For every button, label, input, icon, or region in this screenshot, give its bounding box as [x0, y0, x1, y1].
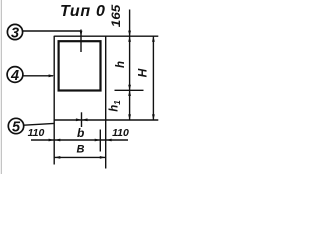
svg-text:5: 5	[12, 119, 21, 135]
svg-text:h1: h1	[109, 100, 123, 112]
svg-text:В: В	[77, 144, 85, 156]
arrowhead of leader 4 pointing right	[49, 74, 55, 77]
arrowhead B-right pointing right	[100, 156, 106, 159]
dimension h vertical line	[129, 36, 131, 90]
bottom extension wire on the right	[54, 119, 158, 121]
dimension B wire	[54, 156, 105, 158]
box right side edge / extension	[105, 36, 107, 169]
arrowhead h1 bottom pointing down	[128, 114, 131, 120]
arrowhead 165 pointing down	[128, 31, 131, 37]
arrowhead h bottom pointing down	[128, 85, 131, 91]
leader drop wire at x=81	[80, 30, 82, 53]
dimension 165 vertical line	[129, 10, 131, 37]
arrowhead b-left pointing left	[55, 139, 61, 142]
svg-text:4: 4	[10, 68, 19, 84]
arrowhead 110-right pointing left	[106, 139, 112, 142]
svg-text:H: H	[136, 68, 150, 77]
extension tick at x=81.5	[81, 112, 83, 127]
svg-text:110: 110	[28, 127, 45, 139]
callout circle 4	[7, 67, 23, 84]
callout circle 5	[8, 118, 23, 135]
arrowhead B-left pointing left	[55, 156, 61, 159]
extension wire at x=100	[99, 130, 101, 152]
svg-text:165: 165	[109, 4, 123, 27]
dimension h1 vertical line	[129, 90, 131, 120]
arrowhead of leader 3 pointing down	[80, 31, 83, 37]
leader wire from callout 4	[23, 75, 53, 77]
arrowhead 110-left pointing right	[49, 139, 55, 142]
svg-text:h: h	[115, 61, 127, 68]
callout circle 3	[7, 24, 22, 41]
box left side edge / extension	[53, 36, 55, 165]
box top edge with right extension	[54, 35, 158, 37]
svg-text:110: 110	[112, 127, 129, 139]
arrowhead h1 top pointing up	[128, 90, 131, 96]
svg-text:b: b	[77, 126, 84, 140]
svg-text:Тип 0: Тип 0	[60, 3, 106, 20]
arrowhead h top pointing up	[128, 36, 131, 42]
arrowhead bowtie at tick pointing right	[76, 118, 82, 121]
dimension H vertical line	[152, 36, 154, 120]
page edge line	[0, 0, 2, 174]
leader wire from callout 5	[24, 123, 54, 125]
inner box thick rectangle	[59, 41, 101, 90]
bottom dimension wire b and 110s	[31, 139, 128, 141]
arrowhead bowtie at tick pointing left	[82, 118, 88, 121]
arrowhead H top pointing up	[152, 36, 155, 42]
arrowhead b-right pointing right	[95, 139, 101, 142]
extension wire of inner bottom to the right	[115, 89, 144, 91]
arrowhead H bottom pointing down	[152, 114, 155, 120]
svg-text:3: 3	[11, 25, 19, 41]
leader wire from callout 3	[23, 30, 81, 32]
